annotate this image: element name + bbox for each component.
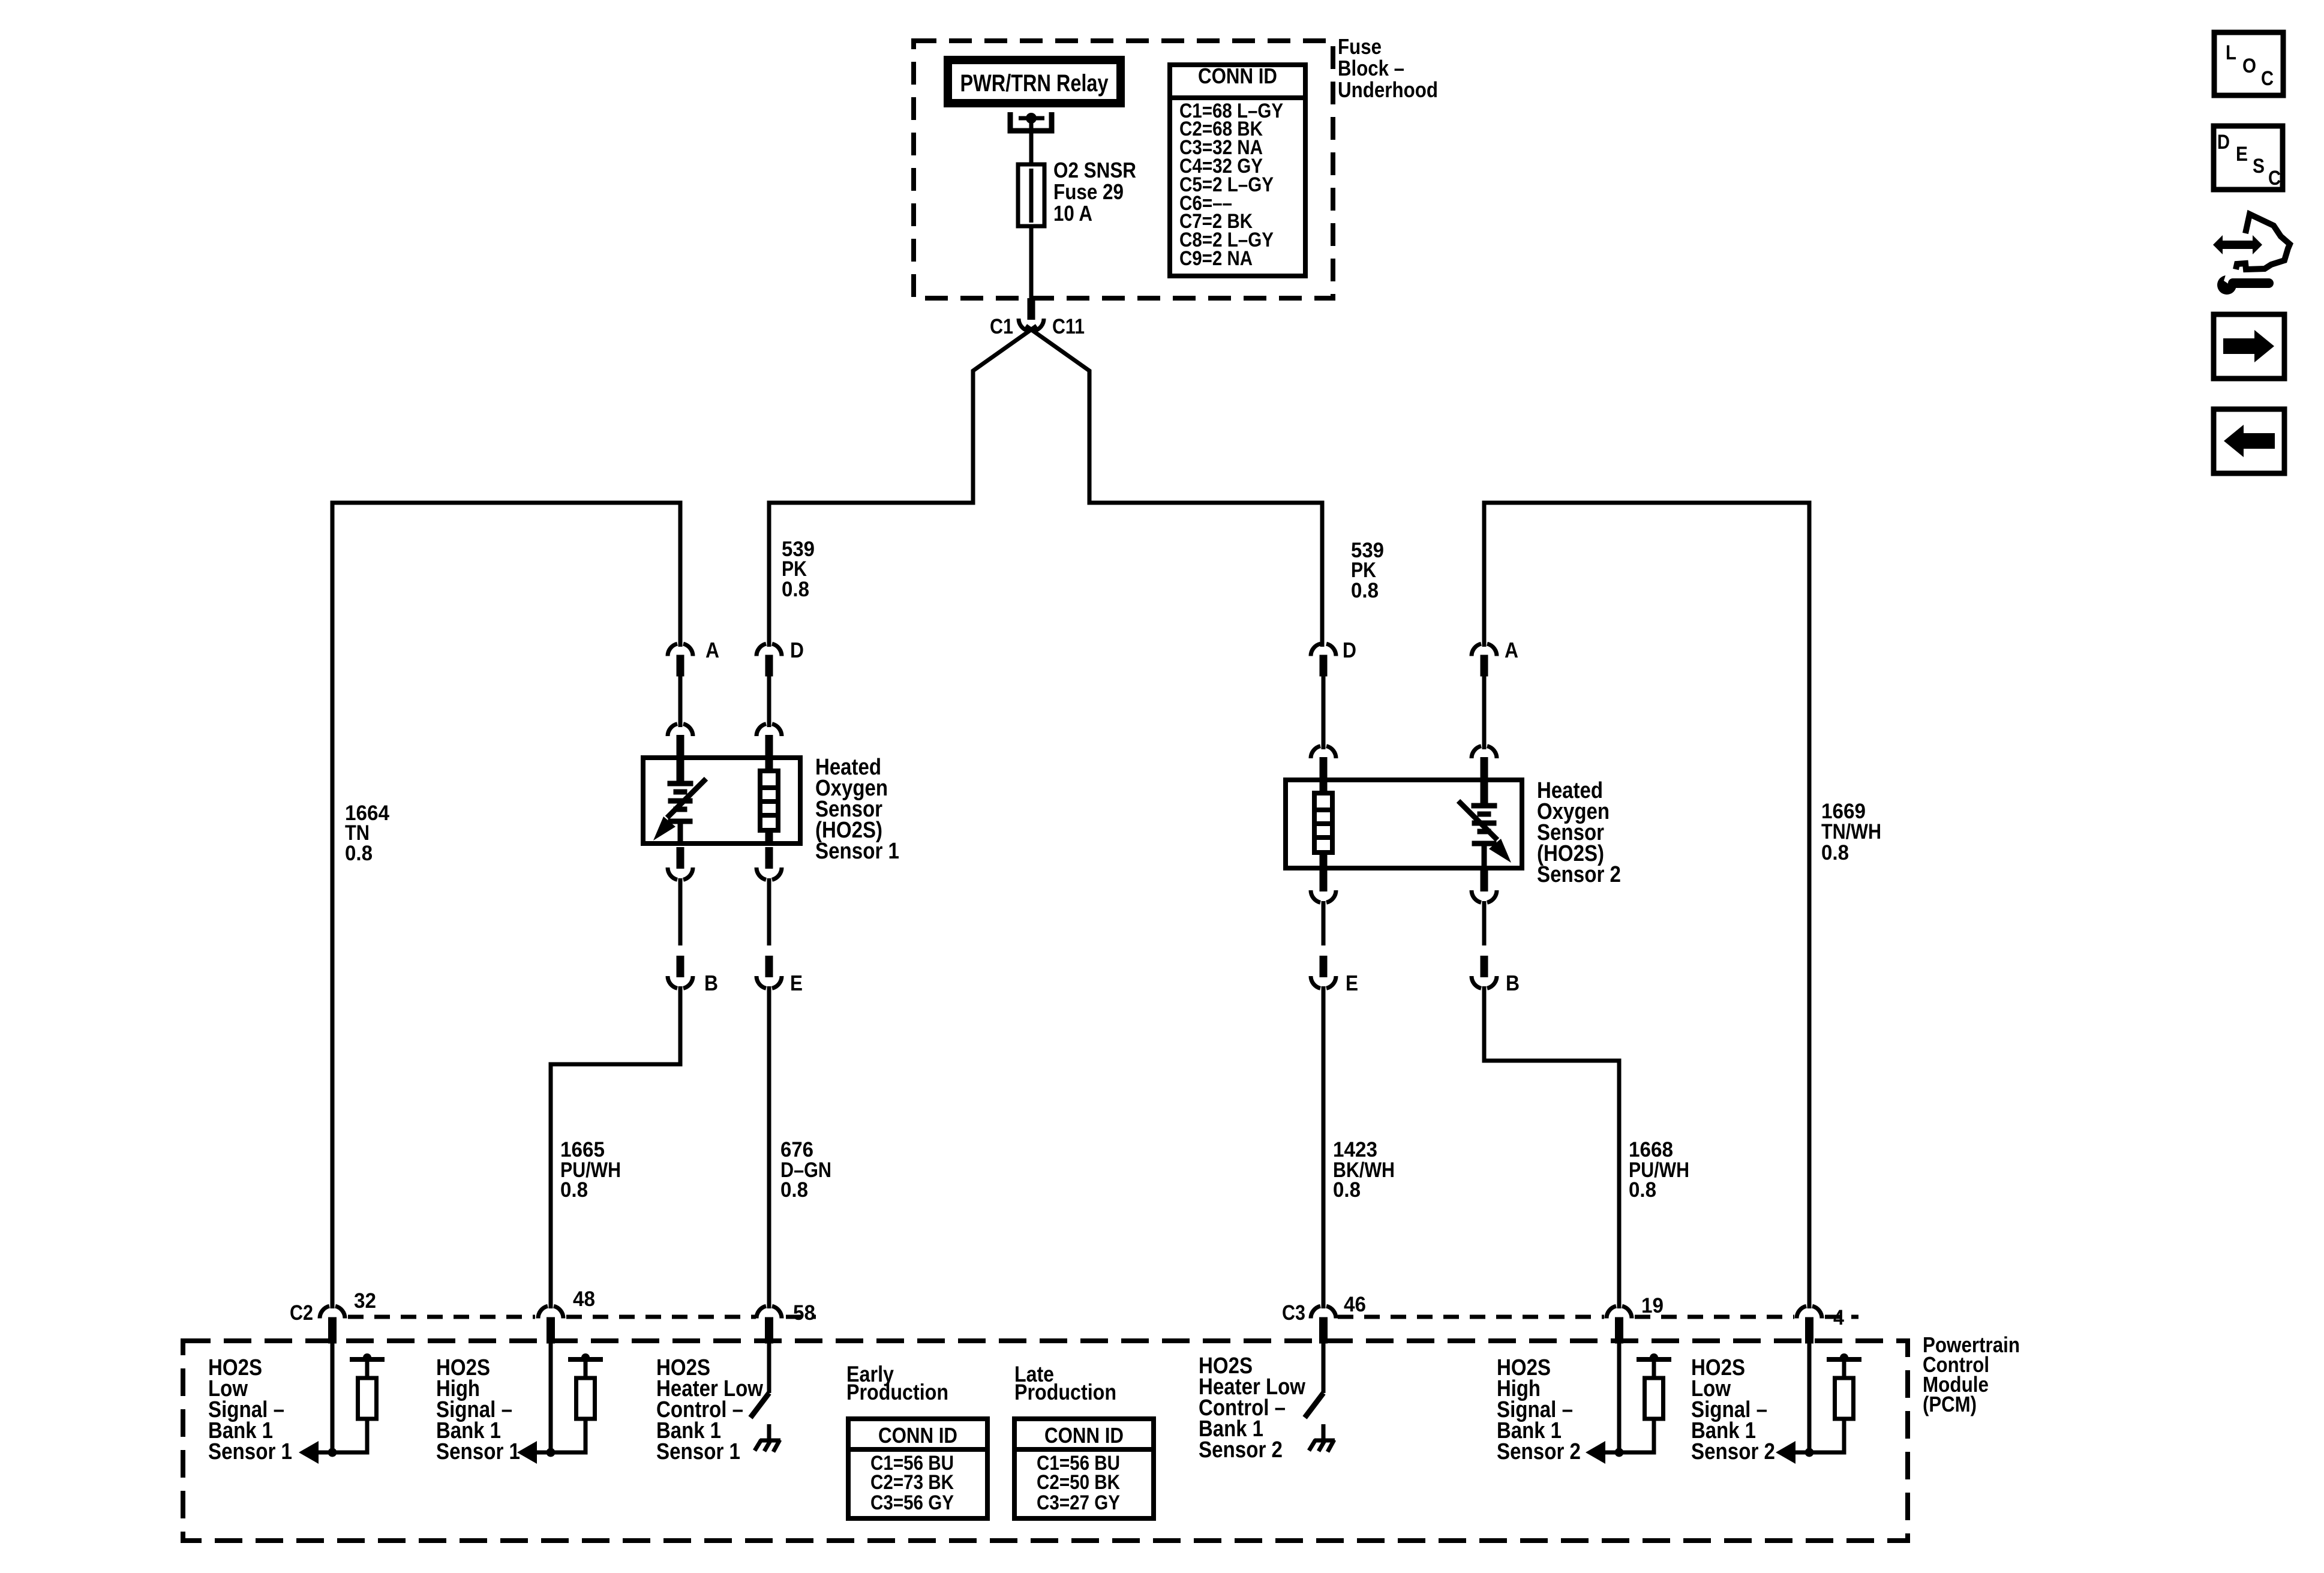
- wire sensor 2 to pin B: [1482, 901, 1487, 945]
- connector pin A (HO2S2): [1472, 644, 1481, 656]
- svg-text:C11: C11: [1052, 315, 1085, 338]
- connector pin D (HO2S2): [1311, 644, 1320, 656]
- svg-text:Fuse 29: Fuse 29: [1053, 179, 1124, 204]
- svg-text:E: E: [790, 971, 803, 995]
- icon wrench/adjust: [2213, 235, 2223, 254]
- svg-text:Underhood: Underhood: [1338, 77, 1438, 102]
- svg-text:Production: Production: [1014, 1380, 1116, 1404]
- PCM input network pin 48 (HO2S high signal bank1 sensor1): [549, 1343, 553, 1452]
- sensor-side connector above E (HO2S1): [756, 867, 766, 879]
- icon DESC: [2214, 126, 2283, 190]
- PCM input network pin 32 (HO2S low signal bank1 sensor1): [331, 1343, 335, 1452]
- wire 1664 TN 0.8 (HO2S1 pin A to PCM pin 32): [332, 503, 680, 1308]
- svg-text:D: D: [2217, 131, 2230, 154]
- sensor-side connector above E (HO2S2): [1311, 890, 1320, 902]
- icon arrow right: [2214, 314, 2284, 379]
- PCM input network pin 19 (HO2S high signal bank1 sensor2): [1617, 1343, 1622, 1452]
- sensor-side connector above B (HO2S1): [668, 867, 677, 879]
- svg-text:Sensor 1: Sensor 1: [208, 1439, 292, 1464]
- svg-text:A: A: [1505, 638, 1518, 662]
- svg-text:Sensor 2: Sensor 2: [1691, 1439, 1775, 1464]
- svg-text:A: A: [705, 638, 719, 662]
- connector row dashes (C2 side): [348, 1315, 535, 1319]
- svg-text:C3: C3: [1282, 1301, 1305, 1325]
- connector row dashes (C3 side): [1338, 1315, 1604, 1319]
- svg-text:Sensor 1: Sensor 1: [815, 839, 899, 864]
- connector pin B (HO2S1): [668, 976, 677, 988]
- sensor-side connector under A (HO2S1): [668, 724, 677, 736]
- svg-text:Sensor 2: Sensor 2: [1497, 1439, 1581, 1464]
- svg-text:B: B: [1506, 971, 1520, 995]
- svg-text:0.8: 0.8: [1629, 1178, 1656, 1202]
- svg-text:C2: C2: [290, 1301, 313, 1325]
- connector pin 48: [538, 1306, 548, 1318]
- svg-text:C: C: [2268, 167, 2281, 190]
- svg-text:0.8: 0.8: [560, 1178, 588, 1202]
- sensor-side connector under A (HO2S2): [1472, 746, 1481, 758]
- wire 676 D-GN 0.8 (HO2S1 pin E to PCM pin 58): [767, 986, 771, 1308]
- svg-text:C1: C1: [990, 315, 1013, 338]
- icon arrow left: [2214, 409, 2284, 473]
- sensor-side connector above B (HO2S2): [1472, 890, 1481, 902]
- relay contact symbol: [1010, 112, 1052, 131]
- conn id table (fuse block): [1170, 65, 1305, 276]
- wire 1665 PU/WH 0.8 (HO2S1 pin B to PCM pin 48): [551, 986, 680, 1308]
- heater element (HO2S1): [765, 757, 773, 771]
- svg-text:48: 48: [573, 1287, 595, 1311]
- svg-text:58: 58: [793, 1301, 815, 1325]
- svg-text:Block –: Block –: [1338, 56, 1404, 80]
- svg-text:CONN ID: CONN ID: [878, 1423, 957, 1448]
- connector pin 19: [1607, 1306, 1616, 1318]
- svg-text:TN/WH: TN/WH: [1821, 820, 1881, 843]
- svg-text:Sensor 1: Sensor 1: [656, 1439, 740, 1464]
- wire 1668 PU/WH 0.8 (HO2S2 pin B to PCM pin 19): [1484, 986, 1619, 1308]
- connector pin 4: [1797, 1306, 1806, 1318]
- svg-text:C2=50 BK: C2=50 BK: [1037, 1471, 1120, 1494]
- sensing element (HO2S1): [677, 757, 684, 784]
- svg-text:(PCM): (PCM): [1923, 1392, 1977, 1416]
- wire sensor 1 to pin B: [678, 878, 683, 945]
- svg-text:CONN ID: CONN ID: [1044, 1423, 1124, 1448]
- svg-text:C: C: [2261, 67, 2274, 90]
- fuse F29 O2 SNSR 10A: [1029, 164, 1034, 298]
- wire sensor 1 to pin E: [767, 878, 771, 945]
- svg-text:C9=2 NA: C9=2 NA: [1179, 247, 1253, 270]
- wire pin D to sensor 2: [1322, 676, 1326, 749]
- svg-text:10 A: 10 A: [1053, 201, 1092, 226]
- svg-text:32: 32: [354, 1289, 376, 1313]
- svg-text:46: 46: [1344, 1293, 1366, 1316]
- svg-text:0.8: 0.8: [1333, 1178, 1361, 1202]
- svg-text:E: E: [1346, 971, 1358, 995]
- sensor-side connector under D (HO2S2): [1311, 746, 1320, 758]
- svg-text:C2=73 BK: C2=73 BK: [870, 1471, 954, 1494]
- wire pin D to sensor 1: [767, 676, 771, 727]
- sensing element (HO2S2): [1481, 779, 1488, 806]
- svg-text:D: D: [790, 638, 804, 662]
- connector pin E (HO2S1): [756, 976, 766, 988]
- svg-text:PWR/TRN Relay: PWR/TRN Relay: [960, 70, 1109, 97]
- relay PWR/TRN Relay (label box): [948, 60, 1121, 103]
- connector pin B (HO2S2): [1472, 976, 1481, 988]
- conn id table (late production): [1014, 1419, 1154, 1518]
- svg-text:O2 SNSR: O2 SNSR: [1053, 158, 1136, 182]
- HO2S sensor 1 box: [643, 758, 800, 843]
- svg-text:O: O: [2242, 55, 2256, 77]
- connector pin A (HO2S1): [668, 644, 677, 656]
- svg-text:19: 19: [1641, 1294, 1664, 1317]
- svg-text:0.8: 0.8: [345, 842, 373, 865]
- wire pin A to sensor 2: [1482, 676, 1487, 749]
- svg-text:0.8: 0.8: [1351, 579, 1379, 602]
- PCM input network pin 4 (HO2S low signal bank1 sensor2): [1807, 1343, 1812, 1452]
- svg-text:4: 4: [1833, 1306, 1844, 1329]
- wire 1423 BK/WH 0.8 (HO2S2 pin E to PCM pin 46): [1322, 986, 1326, 1308]
- icon LOC: [2214, 32, 2283, 95]
- connector C2 pin 32: [320, 1306, 329, 1318]
- sensor-side connector under D (HO2S1): [756, 724, 766, 736]
- svg-text:Production: Production: [846, 1380, 948, 1404]
- wire: splice left branch (to sensor 1 pin D): [973, 326, 1037, 503]
- svg-text:B: B: [704, 971, 718, 995]
- svg-text:CONN ID: CONN ID: [1198, 64, 1277, 88]
- wire: splice right branch (to sensor 2 pin D): [1026, 326, 1089, 503]
- connector C3 pin 46: [1311, 1306, 1320, 1318]
- PCM driver switch pin 46 (HO2S heater low control bank1 sensor2): [1322, 1343, 1326, 1393]
- svg-text:Fuse: Fuse: [1338, 34, 1382, 59]
- svg-text:0.8: 0.8: [1821, 841, 1849, 864]
- heater element (HO2S2): [1320, 779, 1328, 793]
- conn id table (early production): [848, 1419, 987, 1518]
- svg-text:Sensor 2: Sensor 2: [1537, 862, 1621, 887]
- svg-text:D: D: [1343, 638, 1356, 662]
- svg-text:E: E: [2236, 143, 2248, 166]
- HO2S sensor 2 box: [1286, 780, 1522, 868]
- fuse block - underhood dashed enclosure: [914, 41, 1333, 298]
- svg-text:C3=56 GY: C3=56 GY: [870, 1491, 954, 1514]
- svg-text:Sensor 1: Sensor 1: [436, 1439, 520, 1464]
- svg-text:Sensor 2: Sensor 2: [1199, 1437, 1283, 1463]
- wire 1669 TN/WH 0.8 (HO2S2 pin A to PCM pin 4): [1484, 503, 1809, 1308]
- wire: relay to fuse: [1029, 118, 1034, 164]
- wire 539 PK 0.8 (left run to HO2S1 pin D): [769, 503, 975, 647]
- connector pin E (HO2S2): [1311, 976, 1320, 988]
- connector C1/C11 (fuse block to harness): [1028, 298, 1035, 320]
- svg-text:L: L: [2226, 41, 2236, 64]
- PCM dashed enclosure: [183, 1341, 1908, 1541]
- wire 539 PK 0.8 (right run to HO2S2 pin D): [1088, 503, 1323, 647]
- PCM driver switch pin 58 (HO2S heater low control bank1 sensor1): [767, 1343, 771, 1393]
- svg-text:0.8: 0.8: [780, 1178, 808, 1202]
- wire sensor 2 to pin E: [1322, 901, 1326, 945]
- svg-text:S: S: [2253, 155, 2265, 178]
- wire pin A to sensor 1: [678, 676, 683, 727]
- connector pin D (HO2S1): [756, 644, 766, 656]
- connector pin 58: [756, 1306, 766, 1318]
- svg-text:C3=27 GY: C3=27 GY: [1037, 1491, 1120, 1514]
- svg-text:0.8: 0.8: [782, 578, 809, 601]
